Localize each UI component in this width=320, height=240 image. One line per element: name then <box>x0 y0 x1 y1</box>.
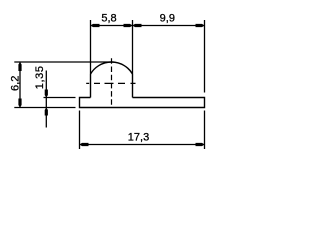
dimension line 1,35 <box>45 71 47 128</box>
extension line plate right end (9,9 right) <box>204 20 206 93</box>
arrow 6,2 top <box>18 62 21 71</box>
extension line plate bottom (6,2 / 1,35) <box>14 107 75 109</box>
svg-text:9,9: 9,9 <box>160 13 175 25</box>
svg-text:6,2: 6,2 <box>10 76 22 91</box>
extension line boss right wall (5,8/9,9 shared) <box>132 20 134 74</box>
svg-text:17,3: 17,3 <box>128 132 149 144</box>
extension line plate top (1,35 top) <box>44 97 76 99</box>
svg-text:1,35: 1,35 <box>34 65 46 89</box>
arrow 9,9 left <box>133 24 142 27</box>
vertical centerline <box>111 58 113 108</box>
dimension line 6,2 <box>19 62 21 108</box>
arrow 17,3 right <box>196 143 205 146</box>
arrow 5,8 left <box>91 24 100 27</box>
arrow 6,2 bottom <box>18 99 21 108</box>
extension line dome apex (6,2 top) <box>14 61 114 63</box>
arrow 9,9 right <box>196 24 205 27</box>
horizontal centerline <box>86 82 135 84</box>
extension line plate left end (17,3 left) <box>79 111 81 150</box>
extension line plate right end (17,3 right) <box>204 111 206 150</box>
plate outline <box>80 98 205 108</box>
arrow 1,35 top (outside, pointing down) <box>45 90 48 98</box>
dome arc <box>91 62 133 74</box>
dimension line top (5,8 and 9,9) <box>91 25 205 27</box>
arrow 1,35 bottom (outside, pointing up) <box>45 108 48 116</box>
boss left wall <box>90 74 92 98</box>
boss right wall <box>132 74 134 98</box>
dimension line 17,3 <box>80 144 205 146</box>
arrow 17,3 left <box>80 143 89 146</box>
svg-text:5,8: 5,8 <box>101 13 116 25</box>
extension line boss left wall (5,8 left) <box>90 20 92 74</box>
arrow 5,8 right <box>124 24 133 27</box>
